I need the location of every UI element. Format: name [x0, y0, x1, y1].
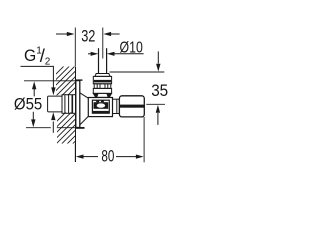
- svg-text:35: 35: [151, 82, 168, 100]
- dim 32 left arrow: [56, 32, 75, 36]
- dim 35 bottom ext line: [146, 103, 165, 105]
- dim O10 leader right: [107, 52, 144, 56]
- wall hatch lower: [50, 96, 82, 167]
- outlet neck: [113, 99, 120, 113]
- dim 32 ext line left: [74, 28, 76, 67]
- dim 32 right arrow: [103, 32, 119, 36]
- wall hatch upper: [50, 50, 80, 113]
- dim 35 up arrow: [156, 105, 160, 125]
- wall face line: [75, 67, 77, 163]
- riser pipe: [99, 48, 107, 73]
- inlet thread nipple G1/2: [48, 95, 76, 114]
- svg-text:Ø55: Ø55: [14, 96, 42, 114]
- handle: [119, 96, 144, 117]
- svg-text:2: 2: [45, 57, 51, 68]
- dim O10 left arrow: [88, 52, 98, 56]
- dim 80 left arrow: [76, 155, 98, 159]
- G1/2 leader: [21, 66, 56, 95]
- compression nut: [93, 74, 111, 98]
- G1/2 lower arrow: [51, 112, 55, 133]
- cone: [80, 93, 89, 125]
- dim 80 ext line right: [143, 117, 145, 162]
- dim O55 down arrow: [31, 112, 35, 127]
- label G1/2: [24, 45, 51, 67]
- dim O55 bottom ext line: [26, 127, 75, 129]
- dim O55 top ext line: [24, 80, 80, 82]
- svg-text:32: 32: [81, 27, 95, 45]
- svg-text:G: G: [24, 47, 36, 65]
- dim 35 top ext line: [110, 71, 165, 73]
- svg-text:80: 80: [101, 148, 114, 166]
- dim 35 down arrow: [156, 51, 160, 71]
- dim O55 up arrow: [32, 81, 36, 96]
- dim 32 ext line right (pipe centerline): [102, 28, 104, 59]
- body window: [92, 100, 109, 113]
- dim 80 ext line left: [74, 144, 76, 162]
- svg-text:Ø10: Ø10: [120, 40, 143, 57]
- valve body: [88, 98, 112, 117]
- escutcheon disc: [76, 80, 85, 128]
- dim 80 right arrow: [116, 155, 144, 159]
